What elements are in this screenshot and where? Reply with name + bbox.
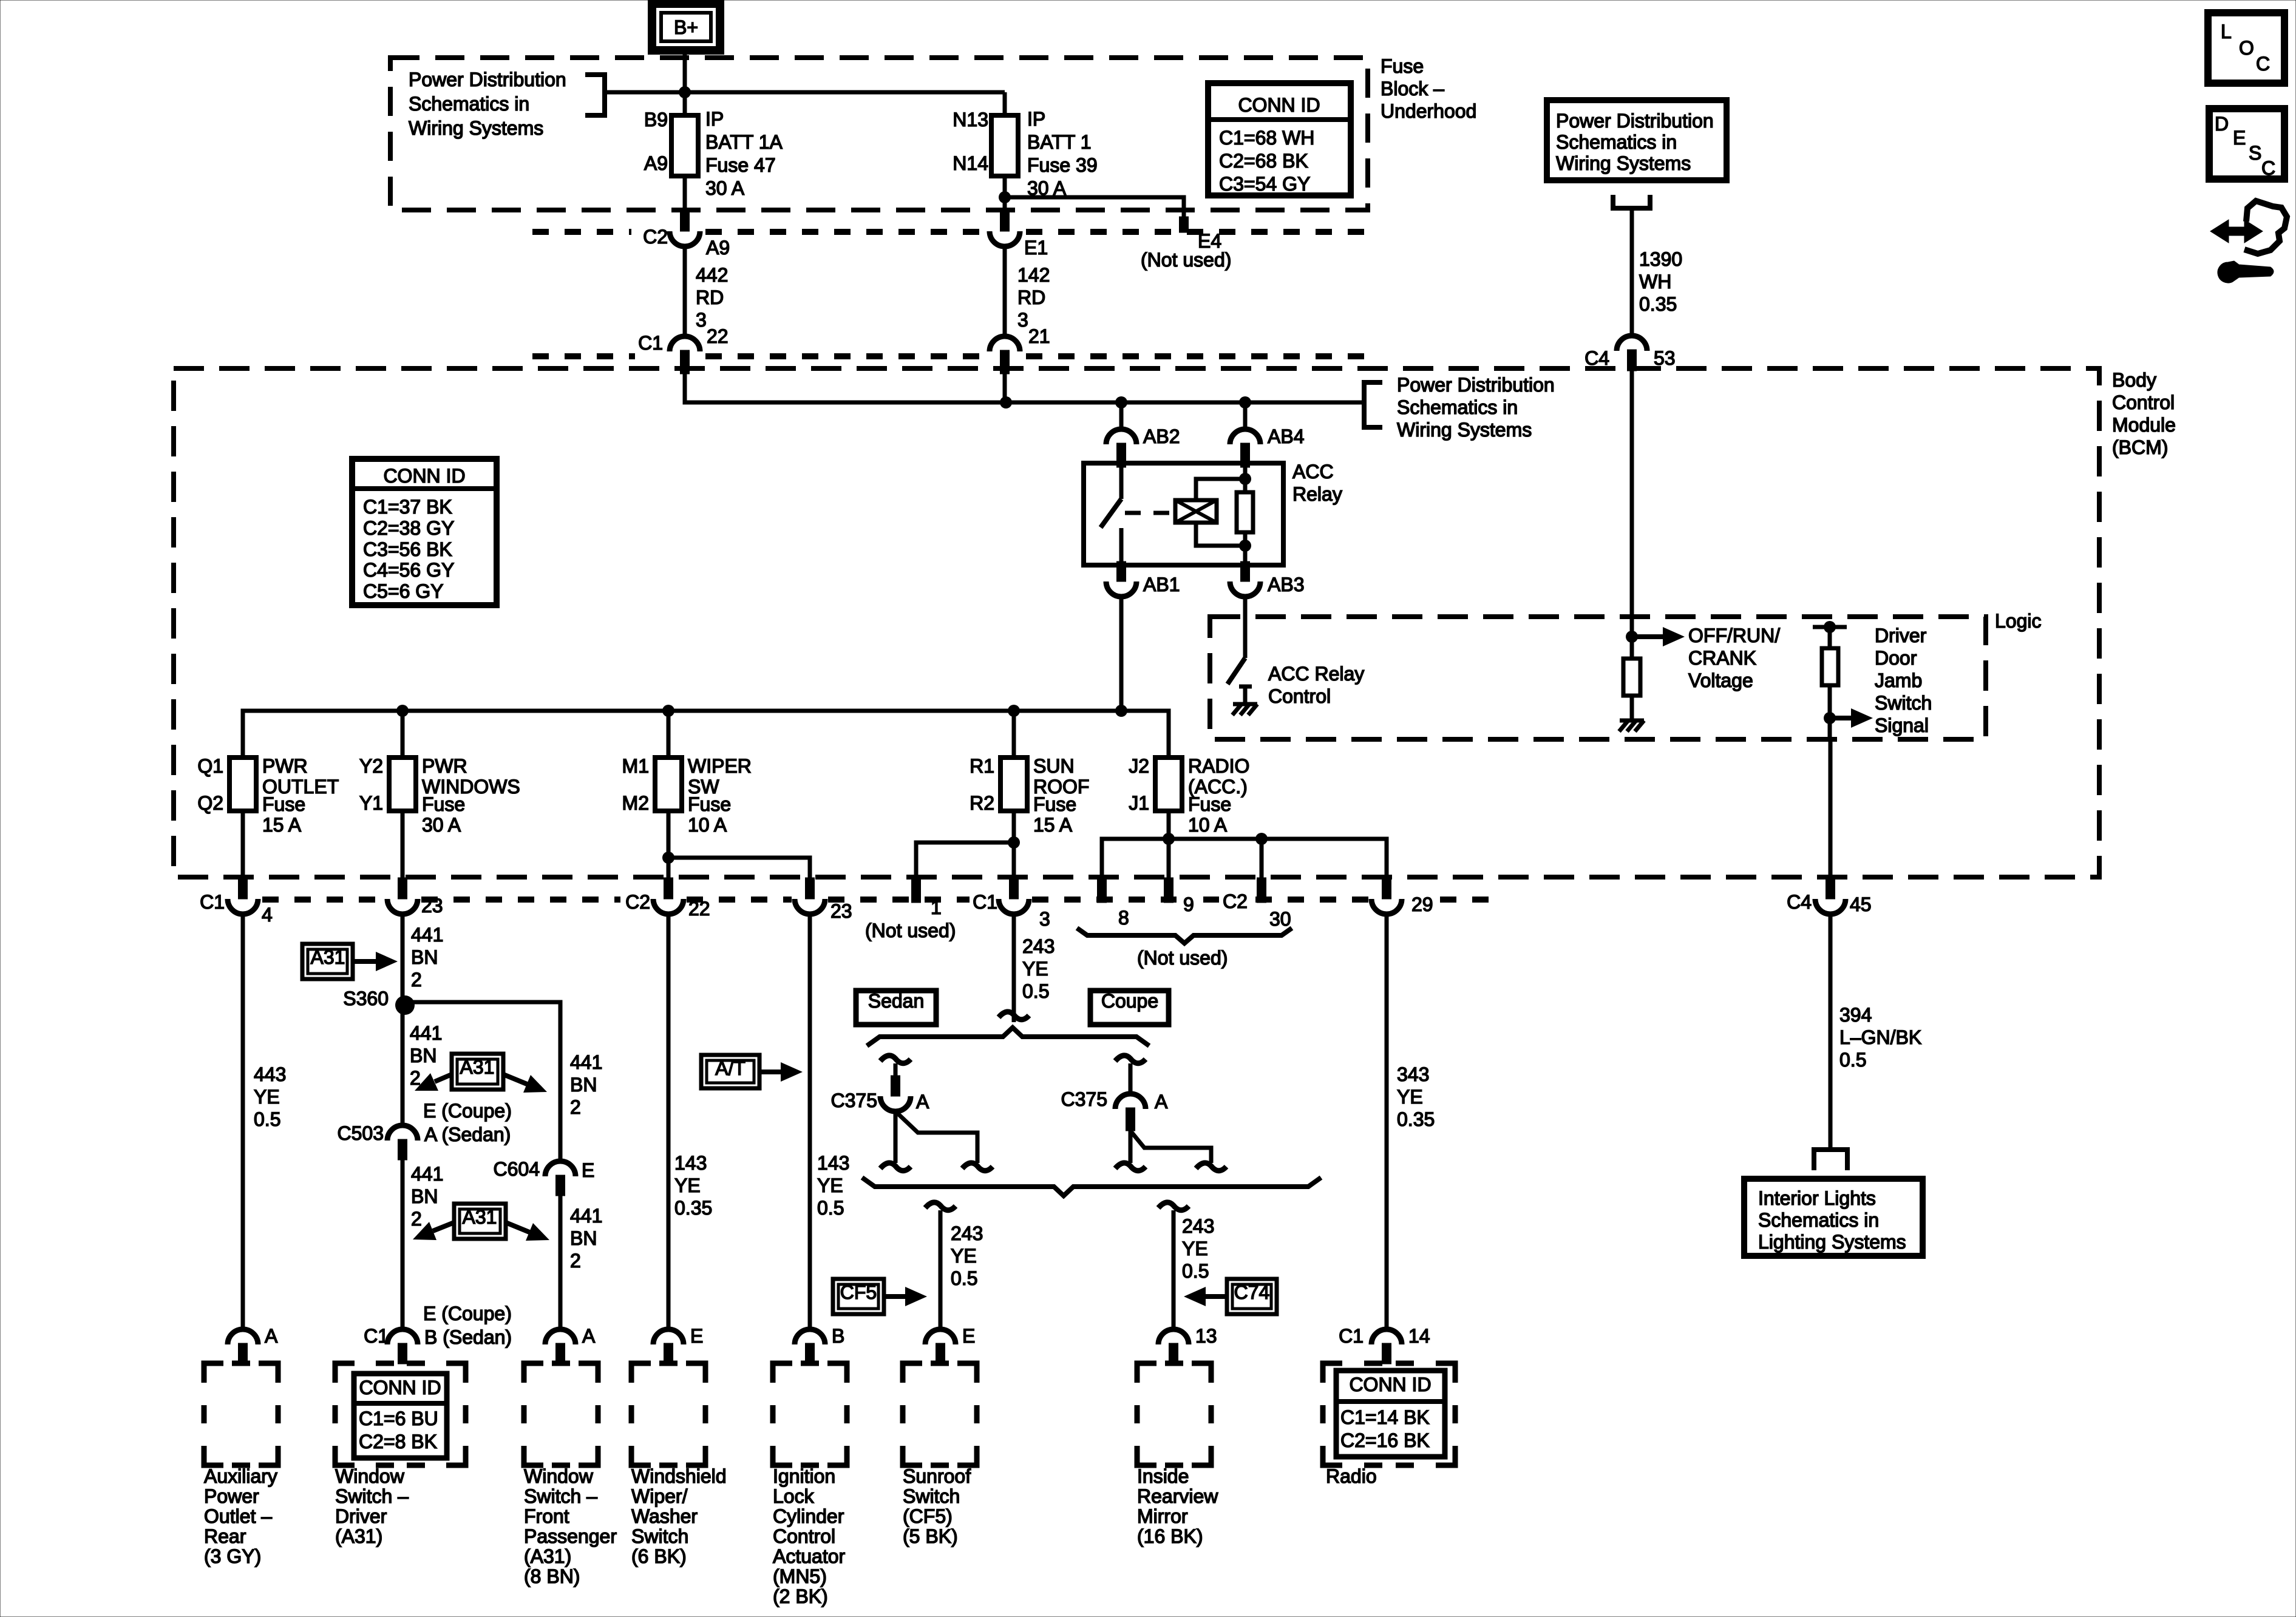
svg-text:N13: N13	[953, 109, 988, 131]
wire C4 45 down	[1829, 914, 1833, 1150]
svg-text:14: 14	[1408, 1325, 1430, 1347]
svg-text:23: 23	[830, 900, 852, 922]
svg-text:22: 22	[688, 898, 710, 920]
hook sedan out left	[880, 1163, 911, 1171]
svg-text:C4=56 GY: C4=56 GY	[363, 559, 454, 581]
navigation arrow wrench icon	[2210, 220, 2263, 243]
connector C4 pin 45	[1826, 878, 1835, 899]
junction dot coil top	[1239, 473, 1251, 485]
junction dot B+ feed	[679, 86, 691, 98]
wire fuse Y to pin 23	[401, 811, 405, 879]
svg-text:B (Sedan): B (Sedan)	[424, 1326, 512, 1348]
svg-text:B+: B+	[674, 16, 698, 38]
wire pin22 down and right	[685, 374, 1005, 402]
windshield wiper dashed box	[631, 1363, 705, 1465]
svg-text:C1: C1	[638, 332, 663, 354]
svg-text:A: A	[916, 1091, 929, 1113]
svg-text:E: E	[582, 1159, 594, 1181]
wire B+ to fuse 47	[683, 50, 687, 115]
wire S360 branch right	[405, 1002, 560, 1162]
svg-text:R2: R2	[970, 792, 994, 814]
svg-text:Control: Control	[1268, 685, 1331, 707]
svg-text:B: B	[832, 1325, 844, 1347]
svg-text:RD: RD	[1017, 286, 1045, 308]
wire AB3 to relay control switch	[1243, 597, 1248, 658]
svg-text:BN: BN	[410, 1045, 436, 1066]
svg-text:L–GN/BK: L–GN/BK	[1839, 1026, 1921, 1048]
relay actuator dashed link	[1125, 511, 1172, 515]
svg-text:Radio: Radio	[1326, 1465, 1377, 1487]
wire bracket to fuse 39 feed	[605, 90, 1005, 95]
svg-text:CONN ID: CONN ID	[1349, 1374, 1431, 1395]
svg-text:8: 8	[1118, 907, 1129, 929]
svg-text:PWR: PWR	[262, 755, 308, 777]
svg-text:Wiper/: Wiper/	[631, 1485, 688, 1507]
svg-text:CONN ID: CONN ID	[383, 465, 465, 487]
svg-text:Power Distribution: Power Distribution	[1397, 374, 1555, 396]
svg-text:C375: C375	[831, 1090, 878, 1111]
svg-text:Schematics in: Schematics in	[1556, 131, 1677, 153]
wire to C4 53	[1630, 208, 1634, 336]
svg-text:Wiring Systems: Wiring Systems	[409, 117, 543, 139]
svg-text:C2: C2	[643, 226, 668, 248]
A31 harness box 3	[454, 1204, 506, 1239]
svg-text:YE: YE	[951, 1245, 977, 1267]
svg-text:C1=14 BK: C1=14 BK	[1340, 1406, 1430, 1428]
off-page bracket left	[585, 75, 605, 115]
relay coil X-box	[1175, 500, 1217, 523]
svg-text:C1=6 BU: C1=6 BU	[359, 1408, 438, 1429]
hook mirror feed	[1158, 1202, 1189, 1210]
driver door jamb input bar	[1813, 625, 1847, 629]
wire jamb switch to C4 45	[1829, 739, 1833, 878]
Coupe box	[1090, 991, 1169, 1025]
svg-text:Power Distribution: Power Distribution	[1556, 110, 1714, 132]
svg-text:Y1: Y1	[359, 792, 383, 814]
svg-text:3: 3	[1039, 908, 1050, 930]
svg-text:Module: Module	[2112, 414, 2176, 436]
fuse PWR OUTLET 15A	[229, 758, 256, 811]
svg-text:13: 13	[1195, 1325, 1217, 1347]
interior lights reference box	[1744, 1179, 1923, 1256]
fuse RADIO ACC 10A	[1155, 758, 1182, 811]
wire sedan path right	[895, 1111, 977, 1163]
svg-text:441: 441	[411, 924, 443, 946]
svg-text:(Not used): (Not used)	[865, 920, 956, 941]
svg-text:Control: Control	[2112, 392, 2175, 413]
svg-text:Rearview: Rearview	[1137, 1485, 1218, 1507]
svg-text:29: 29	[1411, 893, 1433, 915]
wire pin22 wiper to switch	[667, 914, 671, 1330]
svg-text:AB3: AB3	[1268, 574, 1304, 595]
E4 stub not used	[1180, 217, 1189, 232]
svg-text:N14: N14	[953, 152, 988, 174]
junction dot radio split 1	[1163, 833, 1175, 845]
svg-text:Wiring Systems: Wiring Systems	[1556, 152, 1691, 174]
wire bus to ACC relay taps	[1006, 401, 1364, 405]
fuse 39 IP BATT 1	[991, 115, 1018, 176]
connector C2 pin 22	[664, 878, 673, 899]
CF5 harness box	[833, 1279, 884, 1314]
junction dot coil bottom	[1239, 540, 1251, 552]
svg-text:A (Sedan): A (Sedan)	[424, 1124, 511, 1145]
brace top split	[867, 1028, 1149, 1046]
svg-text:C3=54 GY: C3=54 GY	[1219, 173, 1310, 195]
svg-text:A: A	[265, 1325, 278, 1347]
svg-text:2: 2	[570, 1096, 581, 1118]
fuse WIPER SW 10A	[655, 758, 682, 811]
svg-text:10 A: 10 A	[688, 814, 727, 836]
svg-text:C2: C2	[1223, 890, 1248, 912]
connector pin 23	[398, 878, 407, 899]
svg-text:1: 1	[931, 897, 942, 918]
ACC relay box	[1084, 463, 1283, 565]
svg-text:Outlet –: Outlet –	[204, 1505, 272, 1527]
brace not used pins 8 9 30	[1077, 928, 1292, 943]
connector pin 23 wiper	[806, 878, 815, 899]
svg-text:BN: BN	[570, 1227, 597, 1249]
svg-text:15 A: 15 A	[1033, 814, 1073, 836]
wire pin23 to S360	[401, 914, 405, 1001]
connector C375 sedan	[891, 1076, 900, 1096]
svg-text:J2: J2	[1129, 755, 1149, 777]
svg-text:(16 BK): (16 BK)	[1137, 1525, 1203, 1547]
svg-text:O: O	[2239, 37, 2254, 59]
wire sedan path straight	[894, 1111, 898, 1163]
svg-text:Control: Control	[773, 1525, 835, 1547]
svg-text:Lighting Systems: Lighting Systems	[1758, 1231, 1906, 1253]
resistor driver door jamb	[1822, 648, 1838, 685]
svg-text:Cylinder: Cylinder	[773, 1505, 844, 1527]
svg-text:Driver: Driver	[1875, 625, 1927, 646]
svg-text:CF5: CF5	[840, 1281, 877, 1303]
svg-text:3: 3	[1017, 309, 1028, 331]
ground ACC relay control	[1233, 702, 1257, 707]
connector line fuse block row A9-E1	[532, 229, 1368, 235]
hook sedan top	[880, 1056, 911, 1063]
svg-text:(8 BN): (8 BN)	[524, 1565, 580, 1587]
svg-text:2: 2	[411, 1208, 422, 1230]
svg-text:C1: C1	[973, 891, 997, 913]
connector AB3	[1241, 561, 1250, 581]
svg-text:YE: YE	[817, 1175, 843, 1196]
svg-text:YE: YE	[254, 1086, 280, 1108]
svg-text:BN: BN	[570, 1074, 597, 1096]
hook pin3 wire end	[999, 1012, 1029, 1020]
svg-text:Switch: Switch	[1875, 692, 1932, 714]
svg-text:YE: YE	[1182, 1238, 1208, 1259]
svg-text:Mirror: Mirror	[1137, 1505, 1188, 1527]
svg-text:C2=8 BK: C2=8 BK	[359, 1431, 437, 1453]
svg-text:30 A: 30 A	[705, 177, 745, 199]
relay coil element	[1243, 467, 1248, 492]
svg-text:E: E	[962, 1325, 975, 1347]
svg-text:Wiring Systems: Wiring Systems	[1397, 419, 1532, 441]
wire E1 to pin 21	[1003, 246, 1007, 337]
svg-text:(3 GY): (3 GY)	[204, 1545, 261, 1567]
DESC icon box	[2209, 109, 2284, 179]
wire C4-53 into BCM	[1630, 371, 1634, 659]
svg-text:A: A	[582, 1325, 596, 1347]
body control module dashed box	[174, 368, 2099, 877]
svg-text:243: 243	[1022, 935, 1055, 957]
svg-text:45: 45	[1850, 893, 1872, 915]
junction dot radio split 2	[1255, 833, 1268, 845]
junction dot jamb signal	[1824, 712, 1836, 724]
svg-text:AB2: AB2	[1143, 425, 1180, 447]
svg-text:15 A: 15 A	[262, 814, 302, 836]
svg-text:0.5: 0.5	[254, 1108, 280, 1130]
svg-text:C2=16 BK: C2=16 BK	[1340, 1429, 1430, 1451]
svg-text:0.35: 0.35	[1639, 293, 1677, 315]
connector C4 pin 53	[1617, 336, 1647, 351]
CONN ID table window switch	[354, 1374, 447, 1458]
svg-text:YE: YE	[1397, 1086, 1423, 1108]
svg-text:Ignition: Ignition	[773, 1465, 835, 1487]
wire bus drop M	[667, 711, 671, 756]
svg-text:Jamb: Jamb	[1875, 670, 1922, 691]
svg-text:E: E	[690, 1325, 703, 1347]
arrow A31-2 left	[435, 1074, 452, 1082]
B+ battery feed box	[652, 4, 720, 50]
svg-text:23: 23	[421, 895, 443, 917]
ignition lock dashed box	[773, 1363, 847, 1465]
radio dashed box	[1323, 1363, 1455, 1465]
wire pin21 join	[1003, 374, 1007, 402]
svg-text:0.5: 0.5	[1022, 980, 1049, 1002]
connector C2 pin A9	[681, 210, 690, 231]
svg-text:L: L	[2221, 21, 2232, 42]
stub pin 8	[1098, 878, 1107, 903]
hook sunroof feed	[925, 1202, 956, 1210]
svg-text:394: 394	[1839, 1004, 1872, 1026]
svg-text:Logic: Logic	[1995, 610, 2042, 632]
svg-text:C: C	[2261, 157, 2275, 179]
svg-text:S: S	[2249, 142, 2261, 164]
relay switch blade	[1101, 499, 1121, 527]
svg-text:Power Distribution: Power Distribution	[409, 69, 566, 90]
wire pin29 to radio	[1385, 914, 1389, 1330]
svg-text:S360: S360	[343, 988, 389, 1009]
svg-text:E (Coupe): E (Coupe)	[423, 1100, 512, 1122]
relay switch contact top	[1119, 467, 1124, 499]
svg-text:C3=56 BK: C3=56 BK	[363, 538, 452, 560]
junction dot sunroof split	[1008, 836, 1020, 849]
svg-text:Schematics in: Schematics in	[1397, 396, 1518, 418]
svg-text:C: C	[2256, 53, 2270, 75]
svg-text:1390: 1390	[1639, 248, 1682, 270]
svg-text:C4: C4	[1584, 347, 1609, 369]
svg-text:Schematics in: Schematics in	[409, 93, 529, 115]
svg-text:Q2: Q2	[197, 792, 223, 814]
svg-text:A/T: A/T	[715, 1057, 746, 1079]
junction dot bus AB1	[1115, 705, 1127, 717]
svg-text:(Not used): (Not used)	[1137, 947, 1228, 969]
connector A aux power outlet	[228, 1329, 258, 1344]
connector line BCM top row 22-21	[532, 353, 1368, 359]
junction dot wiper branch	[662, 852, 674, 864]
wire pin3 down	[1012, 914, 1016, 1022]
svg-text:143: 143	[674, 1152, 707, 1174]
svg-text:Switch: Switch	[631, 1525, 688, 1547]
svg-text:ACC Relay: ACC Relay	[1268, 663, 1364, 685]
svg-text:Passenger: Passenger	[524, 1525, 617, 1547]
svg-text:D: D	[2215, 113, 2229, 135]
svg-text:Fuse 47: Fuse 47	[705, 154, 776, 176]
svg-text:Y2: Y2	[359, 755, 383, 777]
wire bus drop R	[1012, 711, 1016, 756]
wire branch to E4	[1005, 197, 1184, 219]
svg-text:M2: M2	[622, 792, 649, 814]
svg-text:IP: IP	[705, 108, 724, 130]
svg-text:(BCM): (BCM)	[2112, 436, 2168, 458]
wire radio split to pin 30 and 29	[1169, 839, 1387, 879]
wire coupe path right	[1130, 1131, 1211, 1163]
relay coil loop wiring	[1196, 479, 1245, 500]
svg-text:A9: A9	[706, 237, 730, 259]
wire S360 down	[401, 1005, 405, 1126]
arrow A31 to wire	[353, 959, 376, 964]
svg-text:Switch: Switch	[903, 1485, 960, 1507]
A-T harness box	[701, 1055, 759, 1088]
svg-text:E (Coupe): E (Coupe)	[423, 1303, 512, 1324]
svg-text:Window: Window	[524, 1465, 594, 1487]
svg-text:E: E	[2233, 127, 2246, 149]
svg-text:Fuse: Fuse	[262, 793, 305, 815]
svg-text:2: 2	[411, 969, 422, 991]
arrow CF5 to wire	[884, 1294, 905, 1299]
svg-text:(2 BK): (2 BK)	[773, 1585, 828, 1607]
CONN ID table BCM	[352, 459, 497, 605]
svg-text:(A31): (A31)	[524, 1545, 571, 1567]
wire sunroof split to pin 1	[916, 842, 1014, 879]
arrow A31-3 left	[433, 1222, 454, 1231]
arrow off-run-crank voltage	[1632, 634, 1663, 639]
wire AB1 to accessory bus	[1119, 597, 1124, 711]
wire fuse J down	[1167, 811, 1171, 879]
CONN ID table fuse block	[1208, 83, 1351, 195]
svg-text:(MN5): (MN5)	[773, 1565, 827, 1587]
connector C503	[387, 1125, 418, 1141]
svg-text:C2: C2	[625, 891, 650, 913]
svg-text:441: 441	[410, 1022, 442, 1044]
svg-text:Switch –: Switch –	[524, 1485, 597, 1507]
svg-text:Sedan: Sedan	[868, 990, 925, 1012]
junction dot bus M	[662, 705, 674, 717]
svg-text:A31: A31	[460, 1056, 495, 1078]
svg-text:(5 BK): (5 BK)	[903, 1525, 958, 1547]
bracket below power distribution box	[1613, 195, 1650, 208]
wire fuse39 down	[1003, 176, 1007, 211]
junction dot pin21 bus	[1000, 396, 1012, 408]
junction dot off-run-crank tap	[1626, 631, 1638, 643]
svg-text:C4: C4	[1787, 891, 1812, 913]
svg-text:C1: C1	[1339, 1325, 1364, 1347]
connector pin 29	[1382, 878, 1391, 899]
wire fuse R down	[1012, 811, 1016, 879]
LOC icon box	[2208, 13, 2284, 83]
arrow driver door jamb switch signal	[1830, 716, 1851, 720]
stub pin 9	[1164, 878, 1173, 903]
arrow A31-2 right	[503, 1074, 527, 1084]
svg-text:53: 53	[1654, 347, 1676, 369]
connector E windshield wiper switch	[653, 1329, 684, 1344]
svg-text:C2=68 BK: C2=68 BK	[1219, 150, 1308, 172]
sunroof switch dashed box	[903, 1363, 977, 1465]
svg-text:0.5: 0.5	[817, 1197, 844, 1219]
svg-text:Block –: Block –	[1381, 78, 1444, 100]
inside rearview mirror dashed box	[1137, 1363, 1211, 1465]
wire C503 down	[401, 1160, 405, 1330]
fuse block underhood dashed box	[390, 58, 1368, 210]
connector C1 B window switch driver	[387, 1329, 418, 1344]
svg-text:Schematics in: Schematics in	[1758, 1209, 1879, 1231]
svg-text:(CF5): (CF5)	[903, 1505, 953, 1527]
svg-text:Coupe: Coupe	[1101, 990, 1158, 1012]
svg-text:PWR: PWR	[422, 755, 467, 777]
svg-text:B9: B9	[644, 109, 668, 131]
svg-text:Door: Door	[1875, 647, 1917, 669]
svg-text:Signal: Signal	[1875, 714, 1929, 736]
wire AB4 drop	[1243, 402, 1248, 430]
svg-text:RADIO: RADIO	[1188, 755, 1249, 777]
svg-text:Inside: Inside	[1137, 1465, 1189, 1487]
Sedan box	[856, 991, 936, 1025]
svg-text:0.35: 0.35	[674, 1197, 712, 1219]
wire coupe C375 above	[1129, 1063, 1133, 1094]
hook coupe top	[1115, 1056, 1146, 1063]
connector C604	[545, 1161, 576, 1176]
svg-text:(A31): (A31)	[335, 1525, 382, 1547]
svg-text:OFF/RUN/: OFF/RUN/	[1688, 625, 1780, 646]
svg-text:C5=6 GY: C5=6 GY	[363, 580, 444, 602]
svg-text:A: A	[1155, 1091, 1168, 1113]
svg-text:343: 343	[1397, 1063, 1429, 1085]
accessory voltage bus	[243, 711, 1169, 756]
svg-text:30: 30	[1269, 908, 1291, 930]
relay switch contact bottom	[1119, 528, 1124, 565]
hook coupe out right	[1196, 1163, 1226, 1171]
svg-text:441: 441	[570, 1051, 602, 1073]
svg-text:Switch –: Switch –	[335, 1485, 409, 1507]
fuse SUN ROOF 15A	[1000, 758, 1027, 811]
svg-text:243: 243	[1182, 1215, 1214, 1237]
svg-text:Windshield: Windshield	[631, 1465, 727, 1487]
svg-text:Washer: Washer	[631, 1505, 698, 1527]
svg-text:YE: YE	[674, 1175, 701, 1196]
wire wiper branch to pin 23b	[668, 858, 810, 879]
svg-text:C74: C74	[1234, 1281, 1270, 1303]
off-page bracket BCM power distribution	[1364, 382, 1382, 427]
svg-text:CRANK: CRANK	[1688, 647, 1756, 669]
C74 harness box	[1227, 1279, 1277, 1314]
svg-text:Fuse 39: Fuse 39	[1027, 154, 1098, 176]
A31 harness box 2	[452, 1054, 503, 1090]
window switch driver dashed box	[335, 1363, 466, 1465]
stub pin 1 not used	[912, 878, 921, 903]
svg-text:A31: A31	[463, 1206, 497, 1228]
logic dashed box	[1210, 617, 1986, 739]
brace bottom merge	[862, 1178, 1321, 1196]
svg-text:C375: C375	[1061, 1088, 1108, 1110]
wire coupe path straight	[1129, 1131, 1133, 1163]
connector AB4	[1230, 429, 1260, 444]
hook sedan out right	[962, 1163, 993, 1171]
svg-text:(Not used): (Not used)	[1141, 249, 1231, 271]
aux power outlet dashed box	[204, 1363, 278, 1465]
bracket interior lights	[1814, 1150, 1847, 1170]
junction dot AB4 tap	[1239, 396, 1251, 408]
